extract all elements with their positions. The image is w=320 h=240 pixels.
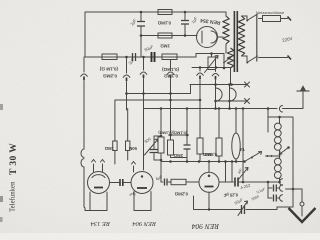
- capacitor C8 4uF: [161, 181, 171, 183]
- edge marks: [0, 104, 3, 110]
- title text left margin: [9, 143, 19, 212]
- tube V1 RE134: [88, 172, 110, 194]
- node E: [199, 66, 202, 69]
- resistor R7 column: [126, 141, 130, 151]
- svg-text:(0,1MΩ)(0,1MΩ): (0,1MΩ)(0,1MΩ): [158, 131, 187, 136]
- jack anode wire: [280, 179, 283, 185]
- wire grid line: [141, 35, 197, 37]
- node B: [184, 11, 187, 14]
- plug chevron x200: [197, 68, 204, 76]
- resistor R5 mains: [263, 16, 281, 22]
- junction dots on bus C: [160, 107, 163, 110]
- wire heater top: [190, 85, 247, 102]
- mains switch bottom: [247, 56, 258, 63]
- resistor R8 column: [158, 137, 164, 153]
- svg-text:2MΩ: 2MΩ: [173, 153, 183, 158]
- switch arm right: [279, 148, 289, 155]
- plug chevron x143: [140, 57, 147, 74]
- cross mark bottom: [245, 99, 250, 104]
- svg-text:T 30 W: T 30 W: [9, 143, 19, 175]
- resistor R1 0,1M: [158, 10, 172, 15]
- node F: [215, 66, 218, 69]
- terminal bottom: [288, 56, 292, 60]
- output box top: [268, 109, 293, 208]
- svg-text:0,1MΩ: 0,1MΩ: [157, 21, 171, 26]
- resistor R3 on lower wire: [162, 54, 177, 60]
- vertical to caps: [267, 182, 269, 198]
- svg-text:RE 134: RE 134: [90, 220, 111, 227]
- transformer T1 winding primary top: [223, 16, 229, 44]
- svg-text:REN 904: REN 904: [191, 222, 220, 231]
- svg-text:1MΩ: 1MΩ: [104, 146, 114, 151]
- antenna symbol: [297, 90, 310, 92]
- plug chevron x84: [81, 57, 88, 76]
- ground terminal: [301, 189, 303, 202]
- wire columns x225 x232: [226, 162, 233, 183]
- plug chevron x126: [123, 57, 130, 77]
- wire vertical C2 branch: [184, 12, 186, 36]
- terminal top: [288, 17, 292, 21]
- jack shape 1: [216, 88, 223, 101]
- wire mid lower: [161, 161, 243, 163]
- svg-text:REN 904: REN 904: [132, 220, 157, 227]
- coil L3 loops: [274, 158, 281, 165]
- tap switch arm: [224, 56, 233, 63]
- bus B: [115, 100, 200, 141]
- bus C: [144, 108, 278, 110]
- mains wire top: [259, 18, 288, 20]
- node A: [140, 11, 143, 14]
- capacitor C9 right of V3: [219, 181, 280, 183]
- svg-text:3µF: 3µF: [128, 192, 136, 197]
- lamp/fuse oval: [232, 133, 240, 159]
- resistor R2 1M: [158, 33, 172, 38]
- svg-text:0,2MΩ: 0,2MΩ: [103, 74, 117, 79]
- plug chevron x215: [212, 68, 219, 76]
- cross mark top: [245, 82, 250, 87]
- capacitor C10 on bottom wire: [242, 205, 245, 214]
- wire to ground terminal: [286, 188, 303, 190]
- resistor R11 column: [216, 138, 222, 156]
- mains wire bottom: [259, 57, 288, 59]
- svg-text:1MΩ: 1MΩ: [160, 44, 170, 49]
- svg-text:50M: 50M: [128, 146, 137, 151]
- svg-text:0,25 µF: 0,25 µF: [223, 193, 238, 198]
- node C: [140, 34, 143, 37]
- svg-text:Telefunken: Telefunken: [10, 181, 17, 212]
- coil L2 loops: [279, 117, 281, 123]
- resistor R6 column: [113, 141, 117, 151]
- capacitor C12: [268, 197, 279, 199]
- bus A: [127, 85, 191, 94]
- transformer core: [234, 11, 237, 72]
- plug chevron x170: [167, 60, 174, 74]
- resistor R4 0,2M with label: [102, 54, 117, 60]
- capacitor C6 column: [186, 109, 188, 162]
- svg-text:0,2MΩ: 0,2MΩ: [174, 192, 188, 197]
- resistor R12 0,2M: [171, 179, 186, 184]
- coil L1: [81, 149, 84, 167]
- tube V2 REN904: [131, 172, 153, 194]
- svg-text:Netzanschlüsse: Netzanschlüsse: [256, 10, 285, 15]
- jack shape 2: [230, 88, 237, 101]
- resistor R9 column 2M: [168, 140, 174, 155]
- jack break and wire to antenna: [279, 92, 303, 112]
- capacitor C3: [133, 53, 136, 61]
- wire top frame: [85, 12, 226, 57]
- svg-text:(0,1M Ω): (0,1M Ω): [99, 67, 118, 72]
- capacitor C2 1uF: [181, 21, 189, 25]
- transformer T1 winding mains: [238, 16, 244, 56]
- transformer T1 winding filament: [227, 48, 233, 68]
- resistor R10 column 1M: [197, 138, 203, 154]
- svg-text:0,5MΩ: 0,5MΩ: [204, 152, 217, 157]
- anode pin V3: [208, 162, 210, 173]
- potentiometer P1: [208, 57, 216, 70]
- capacitor C4 electrolytic 50uF: [152, 52, 155, 62]
- svg-text:T4: T4: [239, 147, 245, 152]
- capacitor C7 between tubes: [110, 182, 132, 184]
- tap contact wire: [266, 155, 279, 157]
- wire vertical C1 branch: [140, 12, 142, 57]
- wire column x243: [242, 109, 244, 183]
- node D: [184, 34, 187, 37]
- capacitor C11: [268, 187, 279, 189]
- switch arm left: [245, 152, 262, 162]
- pot network wires: [192, 54, 231, 69]
- trimmer TC1 sub loop: [154, 136, 161, 160]
- capacitor C1 2uF: [137, 22, 145, 27]
- tube U1 REN354: [197, 27, 218, 48]
- trimmer arrow over C9: [238, 168, 248, 181]
- tube V3 REN904: [199, 172, 219, 192]
- mains switch top: [247, 14, 258, 21]
